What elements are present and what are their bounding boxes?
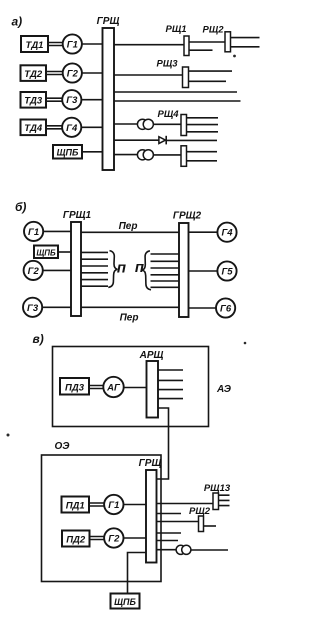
wire G2 to bus1 bbox=[43, 269, 71, 271]
wire ShchPB to bus1 bbox=[58, 251, 71, 253]
shaft link PD1-G1 bbox=[89, 503, 104, 506]
svg-text:Г1: Г1 bbox=[67, 40, 78, 51]
wire AG to ARShch bbox=[124, 387, 147, 389]
wire RShch1 to RShch2 bbox=[189, 41, 225, 43]
svg-text:ЩПБ: ЩПБ bbox=[36, 248, 56, 257]
svg-text:Г2: Г2 bbox=[108, 534, 120, 545]
generator G3 (b) bbox=[23, 298, 42, 317]
wire bus to RShch3 bbox=[114, 74, 183, 76]
svg-text:ТД2: ТД2 bbox=[24, 69, 43, 80]
svg-text:Пер: Пер bbox=[119, 221, 138, 232]
transformer T2 bbox=[137, 150, 147, 160]
wire RShch4 feeder 1 bbox=[187, 117, 219, 119]
busbar GRShch1 bbox=[71, 222, 81, 316]
wire panel feeder 1 bbox=[187, 151, 218, 153]
brace right-closing bbox=[108, 251, 117, 288]
svg-text:ГРЩ2: ГРЩ2 bbox=[173, 211, 202, 222]
svg-text:АГ: АГ bbox=[106, 383, 121, 394]
svg-text:РЩ1: РЩ1 bbox=[165, 24, 186, 35]
RShch2 feeder bbox=[204, 525, 217, 527]
generator G4 bbox=[62, 118, 81, 137]
wire G4 to bus bbox=[81, 126, 102, 128]
feeder group right (6 wires) bbox=[151, 254, 180, 287]
wire RShch1 stub bbox=[189, 49, 213, 51]
box PD1 bbox=[62, 497, 90, 513]
generator G1 bbox=[63, 34, 82, 53]
transfer line bottom bbox=[81, 306, 179, 308]
wire RShch2 feeder 1 bbox=[231, 37, 260, 39]
svg-text:Г5: Г5 bbox=[221, 267, 233, 278]
box ShchPB (b) bbox=[34, 246, 58, 259]
svg-text:ТД3: ТД3 bbox=[24, 96, 43, 107]
svg-text:АЭ: АЭ bbox=[216, 384, 232, 395]
busbar ARShch bbox=[147, 361, 159, 418]
shaft link TD2-G2 bbox=[46, 72, 63, 75]
generator G1 (b) bbox=[24, 222, 43, 241]
wire bus2 to G4 bbox=[189, 231, 218, 233]
wire bus to transformer (v) bbox=[157, 549, 177, 551]
wire G1 to bus bbox=[82, 43, 103, 45]
svg-text:РЩ3: РЩ3 bbox=[156, 59, 178, 70]
generator G5 bbox=[217, 261, 236, 280]
svg-text:Г3: Г3 bbox=[27, 303, 39, 314]
box TD1 bbox=[21, 36, 48, 52]
svg-text:ПД3: ПД3 bbox=[65, 382, 85, 393]
wire ShchPB to bus bbox=[82, 151, 103, 153]
busbar GRShch (section a) bbox=[103, 28, 115, 170]
box TD2 bbox=[21, 65, 47, 81]
generator G2 (v) bbox=[104, 528, 123, 547]
wire panel feeder 2 bbox=[187, 160, 218, 162]
wire ARShch down-feed to GRShch bbox=[157, 408, 169, 479]
wire RShch2 feeder 2 bbox=[231, 46, 260, 48]
speck bbox=[233, 55, 236, 58]
svg-text:ТД1: ТД1 bbox=[26, 40, 44, 51]
generator AG bbox=[103, 377, 123, 397]
svg-text:Г1: Г1 bbox=[108, 500, 119, 511]
shaft link PD2-G2 bbox=[90, 537, 105, 540]
box PD3 bbox=[60, 378, 89, 395]
wire G3 to bus1 bbox=[42, 306, 71, 308]
svg-text:Г2: Г2 bbox=[67, 69, 79, 80]
svg-text:РЩ4: РЩ4 bbox=[157, 109, 179, 120]
svg-text:ГРЩ: ГРЩ bbox=[97, 16, 120, 27]
wire bus stub 2 bbox=[157, 532, 182, 534]
wire bus to transformer 2 bbox=[114, 154, 138, 156]
svg-text:Г6: Г6 bbox=[220, 304, 232, 315]
panel RShch1 bbox=[184, 36, 189, 56]
transformer T1 bbox=[137, 119, 147, 129]
wire RShch3 feeder 2 bbox=[189, 80, 227, 82]
generator G6 bbox=[216, 298, 235, 317]
generator G1 (v) bbox=[104, 495, 123, 514]
wire bus to RShch1 bbox=[114, 44, 184, 46]
RShch13 feeders bbox=[219, 495, 230, 505]
svg-text:а): а) bbox=[12, 15, 23, 29]
box ShchPB (v) bbox=[111, 594, 140, 609]
panel RShch2 bbox=[225, 32, 231, 52]
shaft link TD1-G1 bbox=[48, 43, 63, 46]
wire feeder long 2 bbox=[114, 100, 241, 102]
box PD2 bbox=[62, 531, 90, 547]
generator G3 bbox=[62, 90, 81, 109]
shaft link PD3-AG bbox=[89, 386, 103, 389]
generator G2 (b) bbox=[24, 261, 43, 280]
svg-text:в): в) bbox=[33, 332, 44, 346]
shaft link TD4-G4 bbox=[46, 126, 62, 129]
wire diode out bbox=[166, 139, 217, 141]
svg-text:ОЭ: ОЭ bbox=[55, 441, 71, 452]
panel RShch13 bbox=[213, 493, 219, 510]
transfer line top bbox=[81, 231, 179, 233]
wire G2 to bus bbox=[82, 72, 103, 74]
box TD3 bbox=[21, 92, 47, 108]
panel RShch2 bbox=[199, 516, 204, 532]
svg-text:Г1: Г1 bbox=[28, 227, 39, 238]
panel RShch4 bbox=[181, 115, 187, 136]
wire RShch4 feeder 2 bbox=[187, 124, 219, 126]
generator G2 bbox=[63, 63, 82, 82]
transformer out wire bbox=[191, 549, 228, 551]
svg-text:ПД2: ПД2 bbox=[66, 535, 86, 546]
svg-text:п: п bbox=[135, 259, 144, 276]
wire bus to transformer 1 bbox=[114, 123, 138, 125]
speck left margin bbox=[7, 434, 10, 437]
ARShch feeder stubs bbox=[158, 370, 183, 399]
wire G3 to bus bbox=[81, 99, 102, 101]
wire G1 to bus (v) bbox=[124, 504, 147, 506]
wire RShch3 feeder 1 bbox=[189, 70, 233, 72]
svg-text:ТД4: ТД4 bbox=[24, 123, 43, 134]
speck top right bbox=[244, 342, 247, 345]
frame OE box bbox=[42, 455, 162, 582]
shaft link TD3-G3 bbox=[46, 98, 62, 101]
svg-text:ПД1: ПД1 bbox=[66, 501, 85, 512]
busbar GRShch (v) bbox=[146, 470, 157, 563]
wire transformer 2 to panel bbox=[153, 154, 181, 156]
frame AE box bbox=[53, 347, 209, 427]
wire G1 to bus1 bbox=[43, 230, 71, 232]
svg-text:п: п bbox=[117, 260, 126, 277]
wire RShch4 feeder 3 bbox=[187, 131, 219, 133]
diode VD bbox=[159, 137, 166, 144]
wire bus to RShch2 bbox=[157, 521, 199, 523]
svg-text:РЩ2: РЩ2 bbox=[202, 25, 224, 36]
svg-text:ГРЩ1: ГРЩ1 bbox=[63, 210, 92, 221]
wire transformer 1 to RShch4 bbox=[153, 123, 181, 125]
svg-text:АРЩ: АРЩ bbox=[139, 350, 164, 361]
wire bus to RShch13 bbox=[157, 503, 214, 505]
wire G2 to bus (v) bbox=[124, 537, 147, 539]
generator G4 bbox=[217, 223, 236, 242]
svg-text:ЩПБ: ЩПБ bbox=[57, 147, 79, 157]
wire bus stub 1 bbox=[157, 513, 182, 515]
feeder group left (6 wires) bbox=[81, 252, 108, 286]
wire bus2 to G5 bbox=[189, 270, 218, 272]
panel RShch3 bbox=[183, 67, 189, 88]
box ShchPB (section a) bbox=[53, 145, 82, 159]
svg-text:Г3: Г3 bbox=[66, 95, 78, 106]
wire feeder long 1 bbox=[114, 91, 237, 93]
busbar GRShch2 bbox=[179, 223, 189, 317]
svg-text:ГРЩ: ГРЩ bbox=[139, 458, 162, 469]
wire bus to ShchPB (v) bbox=[128, 553, 147, 594]
svg-text:Пер: Пер bbox=[120, 313, 139, 324]
transformer T3 bbox=[176, 545, 185, 554]
box TD4 bbox=[21, 120, 47, 136]
wire bus2 to G6 bbox=[189, 307, 217, 309]
panel (unlabeled) bbox=[181, 146, 187, 167]
wire bus diode row bbox=[114, 139, 159, 141]
svg-text:Г4: Г4 bbox=[66, 123, 78, 134]
svg-text:б): б) bbox=[15, 200, 26, 214]
svg-text:ЩПБ: ЩПБ bbox=[114, 597, 136, 607]
wire bus stub 3 bbox=[157, 540, 179, 542]
svg-text:Г2: Г2 bbox=[28, 266, 40, 277]
svg-text:Г4: Г4 bbox=[221, 228, 233, 239]
brace left-opening bbox=[142, 251, 151, 290]
